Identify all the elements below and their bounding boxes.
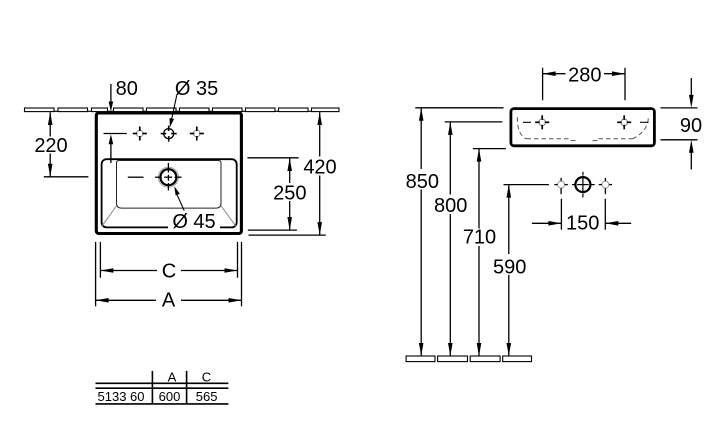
basin bowl contour	[117, 161, 222, 209]
hidden drain step dashes	[571, 140, 598, 142]
dimension 90	[661, 78, 703, 170]
svg-text:A: A	[168, 369, 177, 384]
svg-text:280: 280	[568, 65, 601, 87]
fixing hole circle (right view)	[572, 172, 595, 198]
dimension 420	[249, 112, 339, 235]
drain hole	[128, 163, 182, 191]
floor hatch tiles (right view)	[406, 356, 531, 362]
tap hole middle circle	[161, 126, 177, 142]
svg-text:800: 800	[434, 195, 467, 217]
wall hatch tiles (left view)	[25, 108, 340, 112]
svg-text:220: 220	[34, 135, 67, 157]
dimension C	[100, 242, 237, 283]
svg-text:C: C	[202, 369, 211, 384]
basin rim rounded rect	[102, 159, 237, 227]
dimension 800	[433, 122, 503, 356]
basin bottom-left diagonal	[102, 206, 117, 227]
data table	[96, 371, 229, 404]
svg-text:80: 80	[116, 78, 138, 100]
svg-text:A: A	[162, 289, 176, 311]
dimension Ø35 leader	[170, 78, 219, 127]
washbasin outer body rect (left view)	[96, 113, 241, 234]
svg-text:250: 250	[273, 182, 306, 204]
svg-text:90: 90	[680, 115, 702, 137]
dimension A	[96, 242, 242, 311]
dimension 280	[543, 65, 625, 101]
wall line (left view)	[24, 110, 339, 112]
svg-text:Ø 45: Ø 45	[172, 211, 215, 233]
svg-text:600: 600	[159, 389, 181, 404]
dimension 150	[532, 199, 631, 235]
svg-text:565: 565	[196, 389, 218, 404]
dimension 250	[247, 158, 308, 230]
washbasin slab outline (right view)	[511, 109, 655, 146]
tap hole cross right (right view)	[617, 115, 648, 129]
hidden basin contour (dashed)	[517, 117, 648, 139]
svg-text:C: C	[162, 261, 176, 283]
svg-text:420: 420	[303, 156, 336, 178]
svg-text:Ø 35: Ø 35	[175, 78, 218, 100]
dimension 220	[34, 112, 88, 177]
dimension 80	[104, 78, 138, 163]
svg-text:590: 590	[493, 256, 526, 278]
basin bottom-right diagonal	[221, 206, 236, 227]
svg-text:5133 60: 5133 60	[98, 389, 145, 404]
dimension 590	[491, 185, 549, 356]
dimension 850	[404, 108, 504, 356]
svg-text:150: 150	[566, 213, 599, 235]
svg-text:710: 710	[463, 227, 496, 249]
svg-text:850: 850	[406, 171, 439, 193]
tap hole left cross	[133, 127, 147, 141]
tap hole cross left (right view)	[523, 115, 549, 129]
fixing hole cross right	[599, 178, 612, 194]
tap hole right cross	[190, 127, 204, 141]
dimension Ø45 leader	[168, 186, 220, 233]
fixing hole cross left	[554, 178, 567, 194]
dimension 710	[461, 149, 506, 356]
